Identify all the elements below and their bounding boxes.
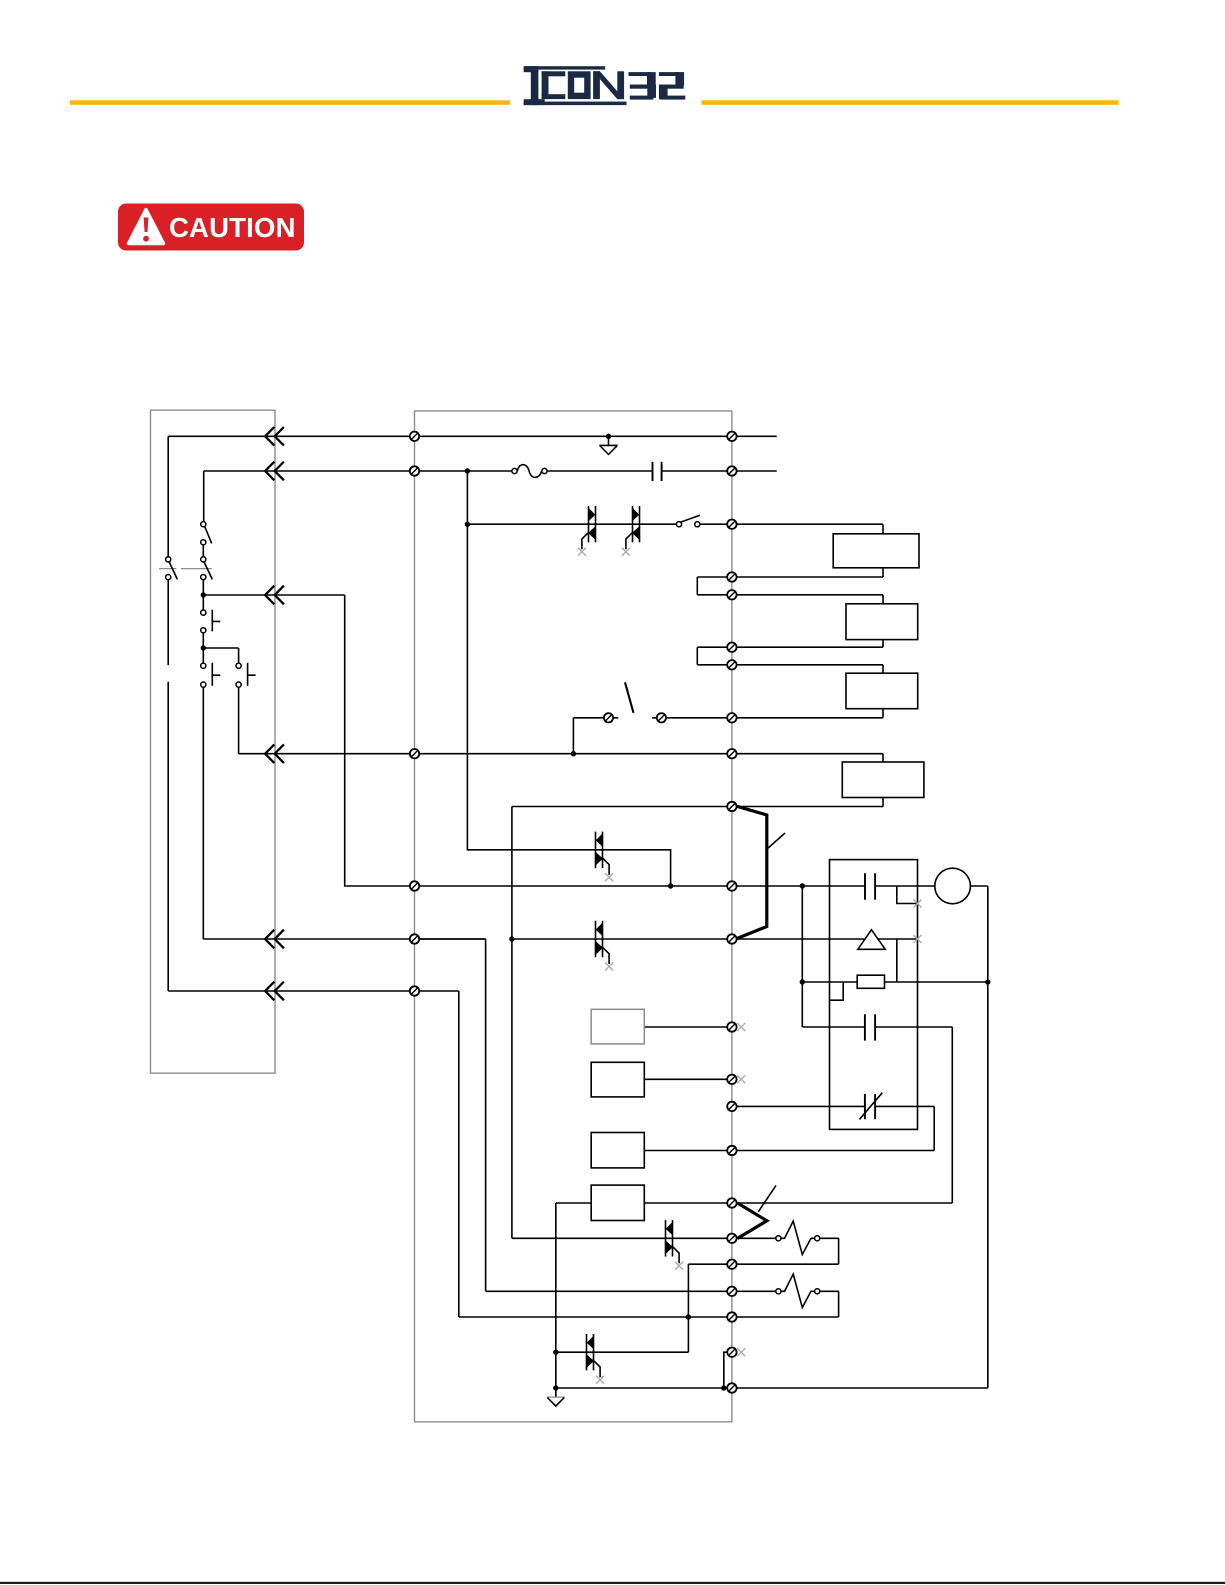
wire between switch contacts [202,545,204,557]
junction [800,979,805,984]
wire right bus outer [987,886,989,1388]
connector chevron row 3 [265,586,284,605]
x mark T22 [737,1348,745,1356]
wire row 3 in box [467,523,883,525]
switch blade S4 [680,515,700,522]
interlock contact B [657,713,666,722]
terminal X2-11 [727,881,736,890]
wire row 6 right part [512,938,918,940]
terminal X2-22 [727,1348,736,1357]
buffer triangle A1 [858,930,885,950]
interlock contact A [604,713,613,722]
wire live feed drop [467,471,670,886]
terminal X2-15 [727,1102,736,1111]
relay coil K2 [846,604,918,640]
high-limit switch HL1 [737,806,785,938]
terminal X2-10 [727,802,736,811]
controller inner box [830,860,918,1130]
terminal X2-19 [727,1260,736,1269]
junction [668,883,673,888]
terminal X2-13 [727,1022,736,1031]
sensor box B1 [591,1009,644,1044]
disconnect pole P2b [201,557,213,580]
triac Q3 [595,832,613,882]
junction [201,592,206,597]
wire col2 below switch [202,580,204,610]
capacitor C3 [865,1014,875,1040]
wire row 17 [486,1290,839,1292]
wire trimmer row [732,1106,934,1150]
terminal X2-2 [727,466,736,475]
wire row 20 [556,1387,988,1389]
ground (top) [599,436,617,454]
relay coil K4 [842,762,924,798]
wire drop D [687,1264,689,1352]
wire hook T22 [724,1352,727,1388]
junction [201,645,206,650]
wire col1 down with break [167,580,169,991]
wire relay K3 loop [732,665,883,718]
pushbutton PB2 [201,663,221,687]
sensor box B3 [591,1133,644,1168]
wire triangle drop [896,939,898,982]
terminal X2-1 [727,432,736,441]
switch linkage [159,568,212,570]
wire interlock switch row [573,717,883,719]
switch blade S5 [625,682,634,713]
junction [985,979,990,984]
wire row 19 [556,1351,689,1353]
junction [553,1350,558,1355]
triac Q6 [586,1334,604,1384]
connector chevron row 4 [265,744,284,763]
capacitor C2 [865,873,875,899]
junction [721,1385,726,1390]
wire row 4 [239,753,883,755]
terminal X1-3 [410,749,419,758]
terminal X1-5 [410,934,419,943]
pushbutton PB1 [201,610,221,633]
terminal X2-23 [727,1383,736,1392]
wire loop row 18 [838,1291,840,1317]
junction [686,1314,691,1319]
trimmer capacitor C4 [860,1093,883,1120]
wire ground bus drop [555,1203,557,1397]
wire col2 bottom drop [202,687,204,939]
wire box B1 lead [644,1026,732,1028]
pushbutton PB3 [236,663,256,687]
wire loop row 16 [688,1238,838,1264]
motor M1 [935,868,971,904]
triac Q4 [595,921,613,971]
wire row L2 with fuse/cap gaps [204,470,777,472]
wire col1 top drop [167,436,169,556]
wire jumper J2 [697,647,732,665]
x mark sensor 2 [914,935,922,943]
terminal X2-6 [727,643,736,652]
wire row 6 to drop B [415,939,486,1291]
svg-text:CAUTION: CAUTION [169,212,296,243]
wire col2 top drop [203,471,205,521]
junction [465,522,470,527]
terminal X2-14 [727,1075,736,1084]
wire row 5 in box with cap gap [415,885,988,887]
terminal X1-1 [410,432,419,441]
fuse F1 [512,465,547,478]
junction [553,1385,558,1390]
wire inner drop [801,886,803,1027]
wire relay K1 loop [732,524,883,577]
switch S4 contacts [676,522,700,527]
terminal X2-18 [727,1234,736,1243]
wire row 13 [556,1202,953,1204]
wire down to row 5 [345,595,415,886]
terminal X2-7 [727,660,736,669]
connector chevron row 5 [265,930,284,949]
wire cap row 2 [802,1026,952,1028]
wire chevron row 6 [168,990,459,992]
disconnect pole P1 [166,557,178,580]
ground (bottom) [547,1388,565,1406]
junction [465,468,470,473]
wire relay K2 loop [697,595,883,647]
junction [606,434,611,439]
terminal X2-17 [727,1198,736,1207]
terminal X1-2 [410,466,419,475]
connector chevron row 6 [265,982,284,1001]
wire interlock drop [572,718,574,754]
terminal X2-12 [727,934,736,943]
wire row 12 [644,1150,934,1152]
junction [800,883,805,888]
high-limit switch HL2 [738,1185,777,1238]
yellow rule right [702,100,1119,105]
thermal cutout TH2 [776,1274,820,1307]
junction [509,936,514,941]
terminal X1-6 [410,986,419,995]
wire bridge to second button [203,648,238,663]
wire chevron row 5 [203,938,485,940]
wire row L1 (line) [168,435,777,437]
footer rule [0,1582,1225,1584]
yellow rule left [70,100,510,105]
sensor box B2 [591,1062,644,1097]
wire col2 between buttons [202,633,204,663]
sensor box B4 [591,1185,644,1220]
wire right bus inner [951,1027,953,1203]
caution badge [118,204,304,251]
wire col3 bottom drop [238,687,240,753]
wire resistor row [802,981,988,983]
terminal X2-4 [727,572,736,581]
terminal X2-16 [727,1146,736,1155]
x mark T14 [737,1075,745,1083]
wire drop C / row 14 [459,991,839,1317]
terminal X2-20 [727,1287,736,1296]
main board enclosure (middle box) [415,411,732,1422]
terminal X2-8 [727,713,736,722]
resistor R1 [857,975,884,988]
junction [571,751,576,756]
terminal X2-5 [727,590,736,599]
disconnect contact P2a [201,522,212,545]
x mark T13 [737,1023,745,1031]
connector chevron row 1 [265,427,284,446]
wire chevron row 3 [203,594,344,596]
connector chevron row 2 [265,462,284,481]
terminal X2-3 [727,520,736,529]
ICON32 logo [524,66,686,105]
wire relay K4 loop / row 8 [512,754,883,807]
x mark sensor 1 [914,900,922,908]
thermal cutout TH1 [776,1221,820,1254]
wire long drop A [511,807,513,1239]
triac Q1 [578,506,596,556]
relay coil K1 [833,534,919,568]
wire sensor stub 1 [897,886,918,904]
wire box B2 lead [644,1078,732,1080]
control unit enclosure (left box) [151,410,276,1073]
wire jog [830,982,844,1000]
triac Q5 [665,1220,683,1270]
terminal X2-21 [727,1312,736,1321]
relay coil K3 [846,673,918,709]
triac Q2 [622,506,640,556]
terminal X1-4 [410,881,419,890]
wire row 15 [512,1237,839,1239]
capacitor C1 [653,462,662,481]
terminal X2-9 [727,749,736,758]
wire jumper J1 [697,577,732,595]
